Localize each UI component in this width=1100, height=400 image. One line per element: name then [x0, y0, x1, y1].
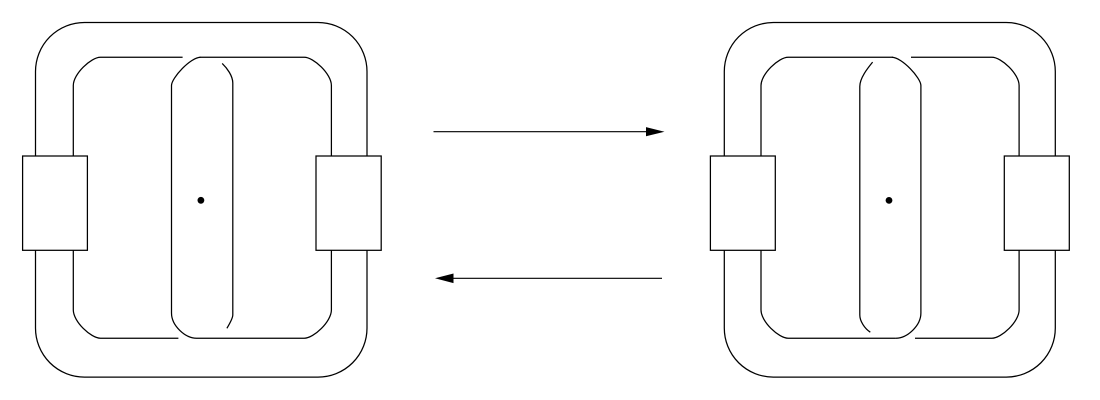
right diagram inner loop left portion — [761, 57, 896, 338]
right diagram left band box — [710, 156, 775, 250]
right diagram middle band left strand (under-strand, clipped ends) — [860, 62, 873, 332]
left diagram outer loop (rounded square) — [36, 23, 368, 378]
bottom arrow head — [435, 274, 454, 284]
left diagram right band box — [316, 156, 381, 250]
left diagram left band box — [23, 156, 88, 250]
left diagram inner loop right portion — [197, 57, 332, 338]
left diagram middle band left strand (over-strand merging with inner loop) — [172, 57, 201, 338]
right diagram inner loop right portion (under-strand, broken before clasp crossings) — [911, 57, 1019, 338]
left diagram inner loop left portion (under-strand, broken before clasp crossings) — [73, 57, 182, 338]
left diagram middle band right strand (under-strand, clipped ends) — [222, 63, 233, 328]
top arrow head — [646, 127, 665, 136]
bottom arrow shaft (right to left) — [453, 277, 662, 279]
right diagram outer loop (rounded square) — [724, 23, 1055, 378]
right diagram right band box — [1004, 156, 1069, 250]
right diagram middle band right strand (over-strand merging with inner loop) — [892, 57, 921, 338]
right diagram marked point — [886, 197, 893, 204]
left diagram marked point — [198, 197, 205, 204]
top arrow shaft (left to right) — [434, 131, 648, 133]
